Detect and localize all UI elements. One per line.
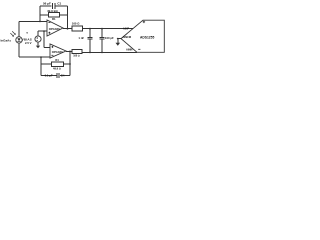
wire U2 feedback left vertical	[40, 57, 42, 75]
svg-text:ADS1255: ADS1255	[140, 36, 154, 40]
svg-text:0.1 µF: 0.1 µF	[45, 74, 53, 78]
ground arrowhead AINCM	[116, 43, 121, 46]
capacitor C2	[88, 29, 93, 53]
wire photodiode cathode	[18, 21, 20, 36]
wire R2 to ADC AINP	[83, 28, 133, 30]
wire photodiode anode	[18, 43, 20, 57]
svg-text:OPA320: OPA320	[52, 50, 63, 54]
svg-text:AINP: AINP	[123, 27, 129, 31]
svg-text:100 pF: 100 pF	[105, 36, 114, 40]
photodiode cathode bar	[17, 40, 20, 42]
wire U2 feedback resistor branch	[41, 63, 70, 65]
svg-text:R4: R4	[55, 58, 59, 62]
svg-text:56 pF: 56 pF	[43, 1, 51, 5]
svg-text:160 Ω: 160 Ω	[72, 21, 80, 25]
wire U2 feedback cap branch	[41, 74, 70, 76]
ground stem at AINCM	[117, 39, 119, 43]
svg-text:49.9 kΩ: 49.9 kΩ	[47, 9, 58, 13]
svg-text:AINCM: AINCM	[123, 35, 132, 39]
svg-text:R1: R1	[52, 17, 56, 21]
wire feedback cap branch	[40, 5, 68, 7]
bias arrow mark	[26, 32, 28, 34]
junction node dots	[39, 21, 41, 23]
light arrow 2	[10, 33, 13, 36]
op-amp U1 triangle	[47, 20, 63, 36]
bias source minus sign	[36, 40, 38, 42]
wire U1 output	[63, 28, 72, 30]
wire lower rail to ADC corner	[82, 51, 137, 53]
light arrow 1	[12, 31, 15, 34]
svg-text:AINN: AINN	[126, 48, 132, 52]
wire feedback left vertical	[39, 6, 41, 21]
U2 minus sign	[51, 54, 53, 56]
U2 plus sign	[51, 46, 53, 48]
wire bias to both + inputs	[38, 31, 50, 47]
bias source V1 circle	[35, 36, 41, 42]
svg-text:InGaAs: InGaAs	[1, 39, 12, 43]
ADC minus sign	[138, 48, 140, 50]
bias source plus sign	[36, 37, 38, 39]
op-amp U2 triangle	[50, 44, 66, 58]
svg-text:1 nF: 1 nF	[78, 36, 84, 40]
ADC plus sign	[143, 21, 145, 23]
resistor R4	[52, 62, 64, 67]
wire U2 feedback right vertical	[69, 51, 71, 75]
svg-text:C1: C1	[57, 1, 61, 5]
wire AINCM stub	[118, 38, 121, 40]
svg-text:49.9 Ω: 49.9 Ω	[53, 67, 61, 71]
svg-text:160 Ω: 160 Ω	[73, 55, 80, 58]
svg-text:2.5 V: 2.5 V	[25, 41, 32, 45]
resistor R1	[49, 12, 60, 17]
photodiode triangle	[17, 38, 20, 41]
wire bottom rail	[19, 56, 50, 58]
U1 minus sign	[48, 22, 50, 24]
wire feedback resistor branch	[40, 14, 68, 16]
svg-text:OPA320: OPA320	[49, 27, 60, 31]
light arrowhead 2	[12, 35, 14, 37]
capacitor C1 plates	[53, 3, 55, 9]
wire inverting input	[19, 20, 47, 22]
resistor R2	[72, 26, 83, 31]
U1 plus sign	[48, 32, 50, 34]
capacitor C3	[100, 29, 105, 53]
capacitor C4 plates	[57, 73, 59, 78]
wire feedback right vertical	[67, 6, 69, 29]
photodiode D1 circle	[16, 37, 22, 43]
wire U2 output	[66, 50, 72, 52]
light arrowhead 1	[14, 33, 16, 35]
ground stem below bias source	[37, 42, 39, 46]
resistor R3	[72, 50, 82, 54]
ground arrowhead bias	[36, 46, 40, 49]
ADC ADS1255 outline	[121, 20, 164, 52]
svg-text:C4: C4	[61, 74, 65, 78]
